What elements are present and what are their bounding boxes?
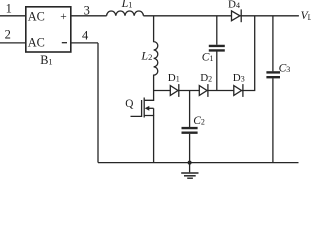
capacitor C3 (266, 16, 280, 163)
bridge B1 minus terminal (62, 42, 67, 44)
label D3 (233, 72, 245, 84)
node VL output label (301, 10, 313, 22)
Q body to source (153, 108, 155, 115)
svg-text:C1: C1 (202, 51, 214, 63)
svg-text:C3: C3 (279, 62, 291, 74)
label D1 (168, 72, 180, 84)
wire top rail left of D4 (143, 15, 231, 17)
inductor L1 (107, 11, 144, 16)
label D2 (200, 72, 212, 84)
pin label 4 (82, 28, 89, 42)
svg-text:D4: D4 (228, 0, 240, 11)
capacitor C1 (209, 16, 225, 91)
svg-text:L1: L1 (121, 0, 133, 10)
svg-text:C2: C2 (193, 115, 205, 127)
Q channel bar (143, 98, 145, 118)
ground symbol (181, 163, 198, 179)
Q drain stub (144, 91, 153, 101)
diode D3 (234, 84, 243, 97)
svg-text:D3: D3 (233, 72, 245, 84)
wire pin3 (71, 15, 107, 17)
svg-text:2: 2 (5, 28, 11, 42)
label L1 (121, 0, 133, 10)
diode D2 (199, 84, 208, 97)
pin label 2 (5, 28, 11, 42)
bridge B1 text AC top (28, 9, 45, 23)
svg-text:B1: B1 (40, 53, 52, 67)
wire diode row: node drain to D1 anode (154, 90, 171, 92)
wire D2 cathode to D3 anode (208, 90, 234, 92)
wire pin4 return vertical (97, 43, 99, 163)
pin label 3 (84, 4, 90, 18)
wire pin2 input (0, 42, 26, 44)
inductor L2 (154, 16, 158, 91)
bridge rectifier B1 box (26, 7, 71, 52)
wire bottom rail (98, 162, 299, 164)
svg-text:+: + (60, 11, 66, 23)
wire pin4 (71, 42, 98, 44)
wire D3 cathode to output riser (243, 16, 255, 91)
label C1 (202, 51, 214, 63)
wire pin1 input (0, 15, 26, 17)
transistor Q MOSFET (131, 91, 154, 163)
bridge B1 plus terminal (60, 11, 66, 23)
diode D1 (170, 84, 179, 97)
wire top rail right of D4 (241, 15, 299, 17)
svg-text:AC: AC (28, 36, 45, 50)
wire D1 cathode to D2 anode (179, 90, 200, 92)
Q gate lead (131, 100, 142, 116)
capacitor C2 (182, 91, 198, 163)
svg-text:D1: D1 (168, 72, 180, 84)
label B1 (40, 53, 52, 67)
label D4 (228, 0, 240, 11)
svg-text:D2: D2 (200, 72, 212, 84)
Q body arrow (147, 107, 154, 109)
label C3 (279, 62, 291, 74)
label Q (125, 98, 133, 110)
svg-text:3: 3 (84, 4, 90, 18)
label L2 (140, 48, 152, 62)
Q source stub (144, 116, 153, 163)
label C2 (193, 115, 205, 127)
svg-text:1: 1 (6, 2, 12, 16)
junction dot ground node (188, 161, 192, 165)
svg-text:Q: Q (125, 98, 133, 110)
diode D4 (232, 9, 242, 22)
bridge B1 text AC bottom (28, 36, 45, 50)
svg-text:L2: L2 (140, 48, 152, 62)
pin label 1 (6, 2, 12, 16)
svg-text:VL: VL (301, 10, 311, 22)
svg-text:AC: AC (28, 9, 45, 23)
svg-text:4: 4 (82, 28, 89, 42)
